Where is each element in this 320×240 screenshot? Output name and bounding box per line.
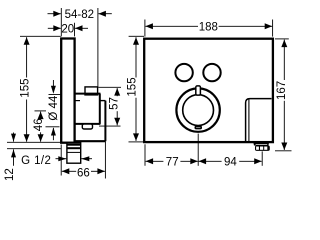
svg-text:155: 155 (19, 79, 31, 98)
svg-text:12: 12 (4, 168, 16, 181)
svg-text:167: 167 (276, 81, 288, 100)
svg-text:94: 94 (224, 157, 237, 169)
svg-text:155: 155 (126, 77, 138, 96)
svg-text:66: 66 (77, 168, 90, 180)
svg-text:G 1/2: G 1/2 (21, 155, 51, 167)
svg-text:46: 46 (33, 118, 45, 131)
svg-text:77: 77 (166, 157, 179, 169)
svg-text:20: 20 (61, 24, 74, 36)
svg-text:Ø 44: Ø 44 (48, 95, 60, 121)
svg-text:54-82: 54-82 (65, 9, 94, 21)
svg-text:188: 188 (199, 22, 218, 34)
svg-text:57: 57 (108, 97, 120, 110)
